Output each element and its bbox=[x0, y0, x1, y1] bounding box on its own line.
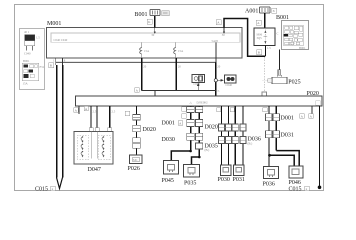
svg-text:20: 20 bbox=[178, 65, 182, 69]
wire from fuse F1 down bbox=[141, 58, 143, 91]
svg-text:D020: D020 bbox=[205, 124, 218, 130]
pin B square (pump) bbox=[257, 50, 262, 55]
svg-text:15A: 15A bbox=[23, 82, 29, 86]
fuel pump A001 box bbox=[254, 28, 275, 46]
svg-text:3Q5: 3Q5 bbox=[257, 36, 263, 40]
P025 sensor bbox=[263, 70, 288, 84]
svg-text:P026: P026 bbox=[128, 166, 140, 172]
svg-text:D030: D030 bbox=[162, 137, 175, 143]
svg-text:5A05: 5A05 bbox=[212, 39, 219, 43]
svg-text:P036: P036 bbox=[263, 182, 275, 188]
legend box bbox=[20, 29, 45, 90]
svg-text:P030: P030 bbox=[218, 177, 230, 183]
pin K square bbox=[147, 19, 152, 24]
svg-text:P031: P031 bbox=[233, 177, 245, 183]
svg-text:F31: F31 bbox=[40, 65, 45, 69]
svg-text:1.5: 1.5 bbox=[36, 36, 40, 40]
svg-text:P045: P045 bbox=[162, 178, 174, 184]
elbow to P035 bbox=[192, 157, 200, 165]
column D001/D031 wires bbox=[268, 106, 270, 167]
svg-text:A001: A001 bbox=[245, 9, 258, 15]
P045 box bbox=[164, 161, 179, 175]
svg-text:D001: D001 bbox=[162, 121, 175, 127]
stub x79 below bar bbox=[78, 106, 80, 114]
svg-text:1.5: 1.5 bbox=[267, 46, 271, 50]
thick wire M001 pin A to pump pin B bbox=[224, 19, 265, 57]
M001 bottom pin B stub bbox=[55, 58, 57, 65]
svg-text:D001: D001 bbox=[281, 116, 294, 122]
wires bar to D047 bbox=[90, 106, 92, 132]
column P026 wire bbox=[136, 106, 138, 155]
fuse panel B001 box bbox=[282, 21, 309, 50]
wire W1 horizontal bbox=[56, 61, 216, 63]
svg-text:P046: P046 bbox=[289, 180, 301, 186]
svg-text:15A: 15A bbox=[144, 49, 150, 53]
long wire right side bbox=[319, 106, 321, 187]
svg-text:B001: B001 bbox=[23, 59, 30, 63]
column P030 wires bbox=[221, 106, 223, 165]
svg-text:30: 30 bbox=[151, 33, 155, 37]
junction circle on V1 bbox=[214, 79, 217, 82]
column P026 blocks bbox=[133, 115, 141, 149]
svg-text:15A: 15A bbox=[178, 49, 184, 53]
svg-text:MC: MC bbox=[133, 158, 138, 162]
svg-text:C015: C015 bbox=[289, 187, 302, 193]
border frame bbox=[15, 5, 324, 191]
junction dot bbox=[198, 156, 201, 159]
svg-text:2.5: 2.5 bbox=[93, 110, 97, 114]
C015 arrow bbox=[57, 178, 63, 189]
svg-text:40 1: 40 1 bbox=[24, 30, 30, 34]
column D001/D030 wires bbox=[190, 106, 192, 151]
pin A square (M001 top) bbox=[216, 20, 221, 25]
svg-text:C: C bbox=[277, 32, 279, 36]
P030 box bbox=[221, 165, 232, 176]
svg-text:C040: C040 bbox=[24, 52, 31, 56]
svg-text:C040 C040: C040 C040 bbox=[54, 38, 68, 42]
box1 relay icon bbox=[192, 75, 205, 87]
svg-text:20: 20 bbox=[143, 65, 147, 69]
pump bottom stub bbox=[264, 46, 266, 57]
M001 inner connector strip bbox=[51, 33, 240, 42]
P026 box bbox=[130, 155, 143, 164]
arrow into box1 bbox=[197, 85, 199, 91]
box2 connector icon bbox=[225, 75, 237, 87]
svg-text:B001: B001 bbox=[299, 46, 306, 50]
pin B square bbox=[49, 63, 54, 68]
P020 bus bar bbox=[76, 96, 323, 106]
P046 box bbox=[289, 166, 303, 178]
svg-text:P025: P025 bbox=[288, 79, 300, 85]
pin A square (pump) bbox=[256, 20, 261, 25]
connector B001 icon bbox=[150, 10, 169, 16]
svg-text:D031: D031 bbox=[281, 133, 294, 139]
P035 box bbox=[184, 165, 200, 178]
wire A001 to pump bbox=[264, 13, 266, 28]
svg-text:(B.): (B.) bbox=[205, 148, 210, 152]
D047 switches bbox=[81, 137, 83, 142]
svg-text:D020: D020 bbox=[143, 127, 156, 133]
stub W2 into bar bbox=[154, 91, 156, 96]
svg-text:20: 20 bbox=[217, 65, 221, 69]
elbow wires to P046 bbox=[276, 151, 299, 166]
legend connector pictogram bbox=[24, 30, 40, 56]
fuse F1 in M001 bbox=[140, 42, 150, 58]
wire V1 vertical to bus bar bbox=[215, 42, 217, 62]
pin squares col pair 1 bbox=[182, 107, 187, 112]
pin A square above bar bbox=[135, 88, 140, 93]
legend fusebox pictogram bbox=[22, 59, 45, 86]
fuse F2 in M001 bbox=[174, 42, 184, 58]
column D036 wires bbox=[234, 106, 236, 165]
P036 box bbox=[264, 167, 279, 179]
blocks col pair 1 bbox=[187, 107, 203, 149]
svg-text:2.5: 2.5 bbox=[112, 110, 116, 114]
svg-text:M001: M001 bbox=[47, 21, 61, 27]
svg-text:a.: a. bbox=[218, 88, 220, 92]
ECU M001 box bbox=[47, 28, 243, 59]
svg-text:B: B bbox=[258, 51, 260, 55]
svg-text:DJJE0KI: DJJE0KI bbox=[197, 100, 208, 104]
wire B001 to M001 bbox=[154, 16, 156, 28]
svg-text:30: 30 bbox=[222, 33, 226, 37]
connector square on bar bbox=[262, 92, 267, 96]
wire panel to P025 bbox=[278, 50, 280, 70]
svg-text:B001: B001 bbox=[135, 12, 148, 18]
svg-text:P035: P035 bbox=[184, 181, 196, 187]
svg-text:B: B bbox=[50, 64, 52, 68]
wire from fuse F2 down bbox=[175, 58, 177, 91]
arrow into box2 bbox=[217, 79, 222, 81]
thick wire to C015 (left) bbox=[56, 65, 58, 178]
elbow to P045 bbox=[171, 151, 190, 161]
svg-text:B001: B001 bbox=[276, 15, 289, 21]
P031 box bbox=[234, 165, 245, 176]
svg-text:C015: C015 bbox=[35, 187, 48, 193]
svg-text:C030: C030 bbox=[194, 82, 201, 86]
wire W2 horizontal bbox=[142, 90, 216, 92]
D047 box bbox=[74, 132, 113, 165]
connector A001 icon bbox=[260, 7, 277, 13]
svg-text:(B.): (B.) bbox=[248, 142, 253, 146]
stub x312 below bar bbox=[311, 106, 313, 114]
dashed wire pump to bus bar bbox=[263, 57, 265, 92]
svg-text:C040: C040 bbox=[226, 83, 233, 87]
svg-text:D047: D047 bbox=[88, 167, 101, 173]
thick wire to C015 (right) bbox=[62, 65, 64, 178]
